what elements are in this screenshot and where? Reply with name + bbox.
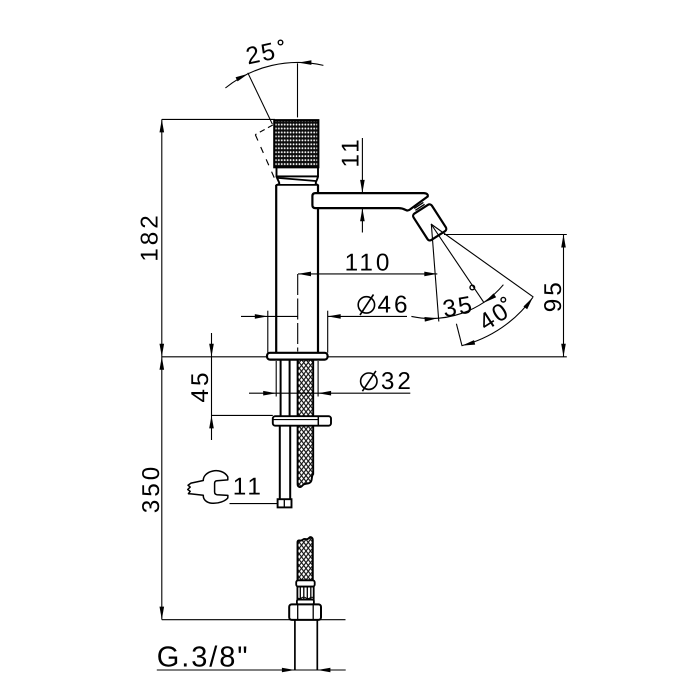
hose crimp collar [296, 580, 315, 604]
mounting nut [273, 416, 331, 426]
supply hose upper braided section [298, 360, 314, 487]
svg-text:182: 182 [136, 212, 163, 262]
threaded pipe G3/8 [295, 620, 317, 670]
svg-text:11: 11 [337, 136, 364, 167]
svg-text:32: 32 [381, 368, 414, 395]
svg-text:95: 95 [540, 279, 567, 312]
handle neck [276, 176, 318, 185]
spray right ray [431, 224, 533, 297]
25 degree vertical ray [297, 63, 299, 117]
aerator [412, 203, 447, 241]
flange base [267, 353, 328, 360]
40 degree tick [456, 324, 462, 346]
centerline [297, 274, 299, 352]
faucet body column [276, 185, 318, 353]
label 40 deg [474, 297, 515, 337]
svg-text:350: 350 [138, 464, 165, 514]
dimension 45 [187, 333, 273, 440]
knurled handle [274, 120, 318, 167]
dimension 182 [136, 119, 275, 619]
counter surface line [162, 356, 567, 358]
dashed tilted handle outline [255, 125, 274, 179]
spray middle ray [431, 224, 484, 303]
25 degree arc [225, 60, 323, 88]
35 degree arc [411, 285, 503, 322]
dimension 110 [298, 250, 437, 277]
svg-text:G.3/8": G.3/8" [157, 642, 250, 674]
dimension G3/8 [157, 642, 346, 674]
spray left ray [431, 225, 438, 322]
svg-text:45: 45 [187, 369, 214, 402]
svg-text:46: 46 [378, 292, 411, 319]
label 25 deg [244, 38, 283, 71]
dimension 11 spout [337, 136, 364, 232]
svg-text:11: 11 [233, 474, 264, 501]
svg-text:110: 110 [345, 250, 393, 277]
lower reference line at hose nut [162, 619, 346, 621]
lower hose braided section [298, 537, 313, 580]
mounting studs [280, 360, 282, 417]
aerator seam lines [414, 202, 424, 210]
dimension 350 [138, 357, 165, 620]
stud end block [278, 499, 292, 507]
wrench icon [188, 471, 228, 504]
40 degree arc [461, 296, 534, 348]
dimension dia46 [241, 292, 411, 353]
hose nut [289, 604, 321, 620]
25 degree tilted ray [248, 73, 273, 124]
dimension dia32 [249, 361, 414, 397]
spout [312, 193, 427, 210]
handle lower band [277, 167, 319, 181]
svg-text:35: 35 [441, 291, 476, 323]
dimension 95 [444, 235, 567, 357]
label 35 deg [441, 285, 476, 323]
label 11 wrench [230, 474, 278, 504]
